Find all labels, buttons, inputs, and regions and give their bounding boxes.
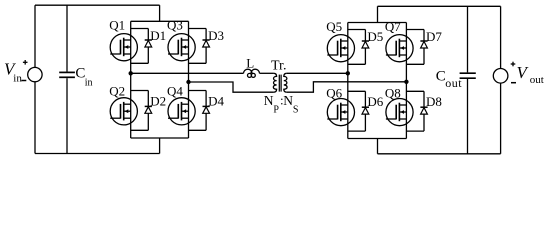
diode D5 (body diode)	[348, 30, 369, 65]
wire: transformer secondary bottom to bridge D midpoint (jog)	[287, 82, 407, 92]
MOSFET Q5	[327, 35, 354, 62]
wire: left leg A (Q1/Q2)	[130, 21, 132, 138]
capacitor Cin	[59, 5, 75, 153]
polarity + (Vin)	[23, 61, 28, 63]
wire: riser right bridge to output bottom rail	[377, 139, 379, 154]
svg-text:L: L	[246, 56, 254, 71]
diode D7 (body diode)	[406, 30, 427, 65]
wire: riser input top rail to left bridge	[159, 5, 161, 21]
svg-text:D2: D2	[150, 93, 166, 108]
wire: input bottom rail	[35, 153, 160, 155]
svg-text:D8: D8	[426, 94, 442, 109]
transformer Tr secondary winding	[284, 73, 287, 92]
wire: right leg C (Q5/Q6)	[347, 23, 349, 139]
MOSFET Q3	[168, 34, 195, 61]
MOSFET Q6	[327, 99, 354, 126]
diode D1 (body diode)	[131, 29, 152, 64]
wire: riser left bridge to input bottom rail	[159, 138, 161, 154]
polarity - (Vin)	[21, 80, 26, 82]
svg-text:N: N	[264, 93, 274, 108]
svg-text:D3: D3	[208, 28, 224, 43]
svg-text:Q1: Q1	[109, 17, 125, 32]
svg-text:D4: D4	[208, 93, 224, 108]
svg-text:Q6: Q6	[326, 86, 342, 101]
wire: right leg D (Q7/Q8)	[405, 23, 407, 139]
node: left leg A midpoint junction	[129, 71, 133, 75]
wire: left bridge top rail	[131, 20, 189, 22]
wire: output bottom rail	[378, 153, 501, 155]
wire: right bridge top rail	[348, 22, 407, 24]
svg-text:N: N	[283, 93, 293, 108]
wire: transformer secondary top to bridge C midpoint	[287, 72, 348, 74]
wire: output top rail	[378, 5, 501, 7]
diode D2 (body diode)	[131, 91, 152, 131]
polarity + (Vout)	[511, 63, 516, 65]
MOSFET Q4	[168, 98, 195, 125]
svg-text:S: S	[293, 104, 299, 115]
svg-text:Q4: Q4	[167, 84, 183, 99]
diode D4 (body diode)	[189, 91, 210, 131]
svg-text:D1: D1	[150, 28, 166, 43]
diode D6 (body diode)	[348, 91, 369, 131]
wire: inductor to transformer primary top	[260, 72, 274, 74]
svg-text:Q3: Q3	[167, 17, 183, 32]
transformer Tr primary winding	[273, 73, 276, 92]
svg-text:Q2: Q2	[109, 84, 125, 99]
diode D8 (body diode)	[406, 91, 427, 131]
capacitor Cout	[460, 6, 476, 154]
voltage source Vout	[493, 6, 508, 154]
wire: bridge A midpoint to inductor	[131, 72, 244, 74]
svg-text:D5: D5	[367, 29, 383, 44]
svg-text:D7: D7	[426, 29, 442, 44]
wire: right bridge bottom rail	[348, 138, 407, 140]
MOSFET Q1	[110, 34, 137, 61]
diode D3 (body diode)	[189, 29, 210, 64]
MOSFET Q2	[110, 98, 137, 125]
wire: bridge B midpoint to transformer primary bottom (jog)	[189, 82, 274, 92]
svg-text:out: out	[530, 74, 544, 86]
svg-text:Tr.: Tr.	[271, 59, 286, 74]
svg-text:Q8: Q8	[385, 86, 401, 101]
svg-text:P: P	[273, 104, 279, 115]
svg-text:D6: D6	[367, 94, 383, 109]
svg-text:out: out	[445, 76, 462, 90]
svg-text:Q7: Q7	[385, 19, 401, 34]
wire: left leg B (Q3/Q4)	[188, 21, 190, 138]
MOSFET Q8	[386, 99, 413, 126]
node: right leg C midpoint junction	[346, 71, 350, 75]
transformer Tr core	[278, 75, 280, 92]
MOSFET Q7	[386, 35, 413, 62]
wire: riser right bridge to output top rail	[377, 6, 379, 22]
svg-text:Q5: Q5	[326, 19, 342, 34]
node: right leg D midpoint junction	[404, 80, 408, 84]
polarity - (Vout)	[511, 82, 516, 84]
inductor L	[244, 69, 260, 77]
voltage source Vin	[28, 5, 42, 153]
wire: input top rail	[35, 4, 160, 6]
svg-text:in: in	[85, 77, 93, 88]
svg-text:in: in	[13, 73, 22, 85]
wire: left bridge bottom rail	[131, 137, 189, 139]
node: left leg B midpoint junction	[186, 80, 190, 84]
